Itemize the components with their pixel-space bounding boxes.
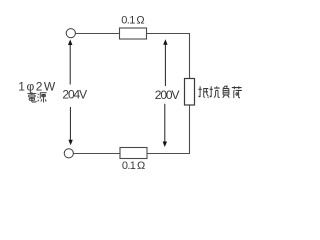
svg-text:200V: 200V: [155, 88, 180, 102]
svg-text:0.1Ω: 0.1Ω: [122, 160, 145, 172]
svg-text:204V: 204V: [62, 88, 87, 102]
svg-text:1φ2W: 1φ2W: [18, 79, 56, 93]
svg-text:0.1Ω: 0.1Ω: [121, 15, 144, 27]
